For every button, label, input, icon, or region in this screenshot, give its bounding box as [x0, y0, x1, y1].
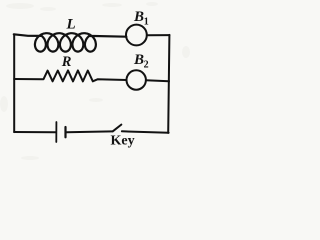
- resistor R with middle wire: [14, 70, 126, 81]
- svg-text:B: B: [133, 52, 144, 68]
- wire middle right of B2: [146, 80, 169, 81]
- svg-text:2: 2: [144, 60, 149, 71]
- inductor L with top wire entry: [14, 33, 127, 51]
- wire bottom right: [122, 131, 169, 132]
- bulb B1: [126, 25, 147, 46]
- battery cell plate short: [64, 127, 66, 137]
- wire bottom mid: [67, 130, 113, 133]
- key switch lever: [113, 125, 122, 132]
- wire bottom left: [14, 131, 55, 133]
- svg-text:Key: Key: [111, 134, 135, 149]
- wire top right of B1: [147, 34, 170, 36]
- battery cell plate long: [55, 122, 57, 142]
- svg-text:L: L: [66, 17, 76, 33]
- bulb B2: [127, 70, 146, 89]
- svg-text:1: 1: [144, 16, 149, 27]
- svg-text:R: R: [61, 54, 72, 70]
- wire right vertical: [168, 35, 169, 133]
- svg-text:B: B: [133, 9, 144, 25]
- paper background: [0, 0, 194, 166]
- wire left vertical: [13, 34, 15, 132]
